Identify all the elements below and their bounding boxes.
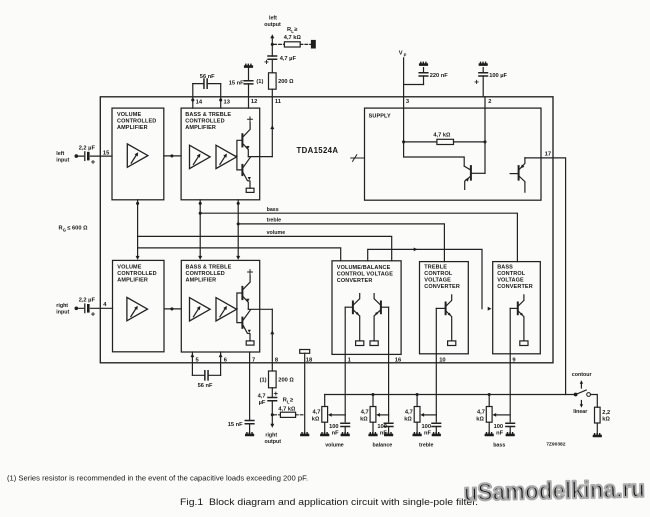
svg-text:11: 11 [275,99,282,105]
wire pot top bass [488,395,490,407]
svg-text:input: input [56,309,69,315]
junction resistor rail right [483,140,486,143]
wire output node to pin 8 [248,308,272,310]
svg-text:G: G [63,227,66,232]
transistor Q2 upper NPN [241,165,243,175]
wire pin 9 internal [509,308,511,354]
svg-text:volume: volume [325,442,344,448]
capacitor 4,7uF right output [268,398,277,401]
svg-text:BASS & TREBLE: BASS & TREBLE [185,112,231,118]
wire pin 9 external [509,354,511,421]
svg-text:BASS & TREBLE: BASS & TREBLE [186,265,232,271]
junction pin 13 [219,98,222,101]
plus mark 100uF [475,80,478,83]
wire pin 1 external [344,354,346,421]
svg-text:100 µF: 100 µF [489,73,507,79]
wire ground to cap pin 12 [248,68,250,81]
wire pin 16 internal [388,307,390,354]
svg-text:nF: nF [332,430,339,436]
net reference rail [325,394,576,396]
wire pot bottom volume [324,422,326,433]
resistor emitter VB left [356,341,364,346]
wire base split right output stage [237,293,242,323]
svg-text:4,7: 4,7 [361,410,369,416]
svg-text:3: 3 [406,99,410,105]
wire resistor to ground [596,423,598,434]
svg-text:VOLTAGE: VOLTAGE [424,278,451,284]
plus supply mark upper [248,117,253,122]
ground 100uF [479,62,488,66]
capacitor 100nF volume [341,423,350,426]
junction bass top [199,202,202,205]
svg-text:CONVERTER: CONVERTER [497,284,533,290]
junction bass bus [199,212,202,215]
svg-text:56 nF: 56 nF [198,383,213,389]
op-amp A3 treble amp left [216,145,237,168]
svg-text:Fig.1 Block diagram and appli: Fig.1 Block diagram and application circ… [180,497,478,508]
junction dashed branch pin 11 [271,43,274,46]
svg-text:4,7 kΩ: 4,7 kΩ [284,35,302,41]
wire Vp to pin 3 [404,58,424,97]
net volume to VB converter [138,248,341,261]
net VB out to bass converter [368,249,482,308]
resistor 4,7k supply [437,139,454,144]
svg-text:TREBLE: TREBLE [424,265,447,271]
svg-text:linear: linear [573,409,587,415]
wire output node to pin 11 [248,156,272,158]
svg-text:VOLUME/BALANCE: VOLUME/BALANCE [337,265,391,271]
capacitor 2,2uF right input [84,304,86,313]
block: bass & treble controlled amplifier (left) [181,108,260,200]
svg-text:(1): (1) [256,79,263,85]
capacitor 15nF top [244,81,253,84]
wire cap to ground bass [509,427,511,434]
block: volume controlled amplifier (left channel) [112,108,164,200]
transistor Q3 supply left PNP [470,166,472,180]
svg-text:AMPLIFIER: AMPLIFIER [185,125,216,131]
junction node lower interstage [170,307,173,310]
svg-text:10: 10 [439,357,445,363]
wire A4 to A5 [164,308,181,310]
svg-text:treble: treble [267,218,281,224]
svg-text:200 Ω: 200 Ω [278,79,294,85]
svg-text:output: output [265,439,282,445]
svg-text:2,2 µF: 2,2 µF [79,298,96,304]
transistor Q5 lower NPN [241,287,243,299]
wire pin 3 internal [404,97,485,166]
wire 56nF bridge bottom [192,374,220,376]
plus mark 4,7uF left [265,60,268,63]
block: treble control voltage converter [420,262,469,354]
wire cap to junction right [271,401,273,424]
resistor RL 4.7k left [284,42,300,47]
ground pin 7 [245,432,254,436]
transistor Q8 VB right [380,302,382,314]
svg-text:7: 7 [252,357,255,363]
svg-text:bass: bass [267,207,279,213]
ground pot treble [413,432,422,436]
svg-text:15: 15 [103,151,110,157]
svg-text:VOLUME: VOLUME [117,112,141,118]
wire left input [76,155,112,157]
block: volume/balance control voltage converter [332,261,401,355]
ground pot balance [368,432,377,436]
wiper arrow treble [424,414,437,416]
ground pin 18 [300,432,309,436]
svg-text:4,7: 4,7 [258,394,266,400]
junction rail bass [488,393,491,396]
block: supply [365,108,542,200]
svg-text:bass: bass [493,442,505,448]
svg-text:BASS: BASS [497,265,513,271]
svg-text:15 nF: 15 nF [229,80,244,86]
svg-text:2: 2 [488,99,491,105]
terminal left input [75,154,79,158]
plus mark 4,7uF right [274,392,277,395]
svg-text:≥: ≥ [294,27,297,33]
resistor emitter bass [520,341,528,346]
svg-text:P: P [404,53,407,58]
block: volume controlled amplifier (right channel) [113,260,165,351]
op-amp A5 bass amp right [190,298,211,321]
resistor emitter VB right [370,341,378,346]
switch common terminal [574,393,578,397]
wire pin 5 [191,352,193,375]
wire right input [76,307,112,309]
op-amp A4 volume amp right [127,297,148,320]
arrow left output [271,38,273,56]
wire 220nF [423,68,425,85]
svg-text:17: 17 [545,152,551,158]
plus supply mark lower [248,270,253,275]
transistor Q6 lower NPN [241,318,243,328]
potentiometer 4,7k treble [414,407,420,423]
capacitor 15nF bottom [245,421,254,424]
wire pin 8 [271,309,273,371]
svg-text:CONVERTER: CONVERTER [424,284,460,290]
ground 2,2k [593,433,602,437]
junction treble bus [237,222,240,225]
svg-text:7Z90382: 7Z90382 [546,442,566,448]
wire pot top balance [372,395,374,407]
op-amp A1 volume amp left [127,144,148,167]
op-amp A6 treble amp right [216,298,237,321]
wire 56nF bridge top [193,83,221,85]
svg-text:18: 18 [306,357,313,363]
wire A1 to A2 [164,155,181,157]
svg-text:4,7: 4,7 [405,410,413,416]
wire pin 6 [220,352,222,375]
arrow direction pin 8 [270,330,274,334]
svg-text:CONTROL: CONTROL [424,271,453,277]
potentiometer 4,7k balance [370,407,376,423]
svg-text:left: left [56,151,64,157]
svg-text:CONTROLLED: CONTROLLED [117,271,156,277]
potentiometer 4,7k bass [486,407,492,423]
svg-text:uSamodelkina.ru: uSamodelkina.ru [464,476,646,507]
svg-text:15 nF: 15 nF [228,422,243,428]
wire 100uF [482,68,484,97]
svg-text:kΩ: kΩ [312,416,320,422]
wire switch to resistor [591,395,598,408]
svg-text:2,2: 2,2 [602,410,610,416]
wire pin 10 external [435,354,437,421]
svg-text:right: right [265,433,277,439]
wire pin 10 internal [435,308,437,354]
wire cap to ground volume [344,427,346,434]
arrow direction pin 11 [270,125,274,129]
net treble bus [238,224,444,262]
svg-text:4,7: 4,7 [313,410,321,416]
wire pot bottom treble [416,422,418,433]
wire pot top volume [324,395,326,407]
svg-text:kΩ: kΩ [602,417,610,423]
wire pot bottom bass [488,422,490,433]
svg-text:100: 100 [329,424,339,430]
wire pot top treble [416,395,418,407]
svg-text:CONTROLLED: CONTROLLED [185,119,224,125]
svg-text:nF: nF [424,430,431,436]
svg-text:4,7 µF: 4,7 µF [280,56,297,62]
junction pin 14 [191,98,194,101]
resistor emitter upper stage [246,188,254,192]
svg-text:(1): (1) [260,377,267,383]
svg-text:4: 4 [103,302,107,308]
wire pin 11 to box [271,89,273,156]
arrow right output [270,424,274,428]
capacitor 56nF top [204,79,207,88]
svg-text:right: right [56,303,68,309]
svg-text:≤ 600 Ω: ≤ 600 Ω [67,225,88,231]
capacitor 56nF bottom [205,371,208,380]
svg-text:≥: ≥ [290,398,293,404]
capacitor 100nF treble [432,423,441,426]
junction volume top [136,202,139,205]
plus mark right input [92,313,95,316]
junction rail treble [416,393,419,396]
capacitor 220nF [419,73,428,76]
svg-text:VOLUME: VOLUME [117,265,141,271]
ground above 15nF top [244,64,253,68]
svg-text:VOLTAGE: VOLTAGE [497,278,524,284]
wire bass control vertical [199,200,201,257]
wire pin 14 [192,84,194,109]
svg-text:balance: balance [373,442,393,448]
net bass bus [200,213,517,261]
svg-text:100: 100 [377,424,387,430]
junction resistor rail left [402,140,405,143]
block: bass control voltage converter [493,262,541,354]
arrow VB to bass [414,248,418,252]
svg-text:AMPLIFIER: AMPLIFIER [186,278,217,284]
wire pin 7 [249,352,251,421]
svg-text:left: left [269,16,277,22]
stub slashed wire supply left [351,155,365,162]
transistor Q4 supply right PNP [518,166,520,180]
wire pin 16 external [388,354,390,421]
wiper arrow bass [496,414,511,416]
svg-text:100: 100 [422,424,432,430]
svg-text:13: 13 [224,100,231,106]
arrow into lower BT bass [198,256,202,260]
svg-text:CONTROL: CONTROL [497,271,526,277]
arrow into bass box [488,307,492,311]
svg-text:100: 100 [494,424,504,430]
wire dashed to load RL right [274,414,305,416]
svg-text:kΩ: kΩ [476,416,484,422]
junction rail balance [371,393,374,396]
arrow pin 5 up [191,353,195,357]
svg-text:output: output [264,22,281,28]
svg-text:2,2 µF: 2,2 µF [79,146,96,152]
ground pot bass [485,432,494,436]
svg-text:4,7: 4,7 [477,410,485,416]
svg-text:220 nF: 220 nF [430,73,449,79]
wire pin 2 internal [484,97,486,174]
svg-text:16: 16 [395,357,402,363]
transistor Q9 treble [445,303,447,315]
junction right output [271,413,274,416]
svg-text:kΩ: kΩ [404,416,412,422]
transistor Q7 VB left [352,302,354,314]
resistor 2,2k [595,407,601,423]
wire pin 18 to ground [304,353,306,433]
wire pin 12 [248,84,250,108]
switch open contact [587,393,591,397]
svg-text:12: 12 [251,99,257,105]
svg-text:nF: nF [496,430,503,436]
svg-text:CONTROL VOLTAGE: CONTROL VOLTAGE [337,271,393,277]
svg-text:contour: contour [572,372,592,378]
arrow contour up [580,383,582,388]
wire 200ohm to cap right [271,388,273,398]
arrow pin 6 up [219,353,223,357]
svg-text:14: 14 [196,100,203,106]
svg-text:CONTROLLED: CONTROLLED [117,119,156,125]
ground 220nF [419,62,428,66]
junction treble top [237,202,240,205]
wire pot bottom balance [372,422,374,433]
wire cap to ground treble [435,427,437,434]
svg-text:volume: volume [267,230,286,236]
ground pot volume [320,432,329,436]
svg-text:56 nF: 56 nF [200,74,215,80]
arrow into lower VCA [136,256,140,260]
switch blade contour/linear [576,390,587,395]
capacitor 4,7uF left output [268,56,277,59]
block: bass & treble controlled amplifier (right) [181,260,259,352]
svg-text:CONVERTER: CONVERTER [337,278,373,284]
IC outer boundary box TDA1524A [100,97,553,363]
transistor Q1 upper NPN [241,134,243,146]
capacitor 100uF [479,73,488,76]
wire pin 17 [525,158,566,395]
svg-text:4,7 kΩ: 4,7 kΩ [278,406,296,412]
svg-text:TDA1524A: TDA1524A [297,146,339,155]
net volume bus [138,236,392,260]
wire pin 13 [220,84,222,109]
svg-text:treble: treble [419,442,433,448]
svg-text:AMPLIFIER: AMPLIFIER [117,278,148,284]
ground cap balance [384,432,393,436]
resistor emitter treble [448,341,456,346]
capacitor 100nF bass [506,423,515,426]
op-amp A2 bass amp left [190,145,211,168]
wire base split left output stage [236,140,241,170]
resistor RL 4,7k right [280,412,295,417]
capacitor 100nF balance [384,423,393,426]
svg-text:(1) Series resistor is recomme: (1) Series resistor is recommended in th… [7,473,308,482]
plus mark left input [92,160,95,163]
arrow linear down [580,401,582,405]
terminal box pin 18 [300,350,310,354]
wire cap to 200ohm left [271,59,273,73]
potentiometer 4,7k volume [322,407,328,423]
svg-text:CONTROLLED: CONTROLLED [186,271,225,277]
arrow into lower BT treble [236,256,240,260]
resistor emitter lower stage [246,341,254,345]
svg-text:4,7 kΩ: 4,7 kΩ [433,133,451,139]
svg-text:V: V [399,51,403,57]
load terminal left (speaker) [311,40,316,49]
wire cap to ground balance [388,427,390,434]
resistor 200 ohm right (1) [269,371,277,388]
wire dashed to load RL left [274,43,311,45]
junction node upper interstage [170,154,173,157]
svg-text:SUPPLY: SUPPLY [369,114,391,120]
ground cap bass [506,432,515,436]
wire treble control vertical [237,200,239,257]
svg-text:AMPLIFIER: AMPLIFIER [117,125,148,131]
wire 15nF to ground [249,424,251,433]
wiper arrow volume [331,414,345,416]
ground cap treble [432,432,441,436]
svg-text:µF: µF [259,400,266,406]
wiper arrow balance [380,414,389,416]
ground cap volume [341,432,350,436]
svg-text:input: input [56,157,69,163]
capacitor 2,2uF left input [84,152,86,161]
terminal right input [75,307,79,311]
svg-text:200 Ω: 200 Ω [278,377,294,383]
resistor 200 ohm left (1) [269,73,277,89]
wire pin 1 internal [344,307,346,354]
transistor Q10 bass [517,303,519,315]
wire volume control vertical [137,200,139,257]
svg-text:kΩ: kΩ [360,416,368,422]
